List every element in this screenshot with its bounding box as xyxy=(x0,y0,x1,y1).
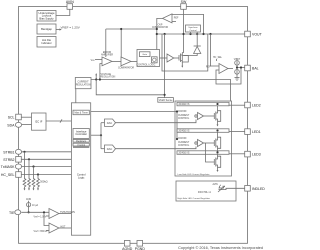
wire NFET source sink arrow xyxy=(181,63,183,67)
DAC 2 xyxy=(105,145,116,152)
svg-text:I2C IF: I2C IF xyxy=(35,119,43,123)
wire DAC1 to channel 1 xyxy=(116,120,197,123)
wire TIE input xyxy=(21,211,49,213)
block I2C interface xyxy=(32,113,47,130)
wire comparator 2 ref stub xyxy=(46,230,49,232)
wire BAL ref input from VOUT rail xyxy=(211,34,220,66)
svg-text:20/40Ω I/S: 20/40Ω I/S xyxy=(179,104,190,106)
block undervoltage lockout bias supply xyxy=(37,11,56,22)
pin SDA xyxy=(15,122,21,127)
wire comparator 2 output xyxy=(59,227,71,229)
wire current sources junction xyxy=(236,65,238,69)
wire BAL output xyxy=(237,67,245,69)
pin STRB2 xyxy=(16,157,22,163)
svg-text:ON/OFF: ON/OFF xyxy=(178,111,187,113)
block control logic inner timer xyxy=(140,52,151,57)
svg-text:Control: Control xyxy=(77,144,85,147)
svg-text:HC_SEL: HC_SEL xyxy=(1,173,15,177)
block registers xyxy=(73,139,89,142)
svg-text:AVIN: AVIN xyxy=(66,0,74,4)
wire ch2 drain to bar2 xyxy=(217,132,219,137)
svg-text:HOT: HOT xyxy=(61,226,66,228)
resistor pulldown STRB2 xyxy=(28,159,31,188)
block interface control xyxy=(73,129,89,139)
wire ch1 drain to bar1 xyxy=(217,106,219,111)
chip boundary frame xyxy=(19,7,248,244)
svg-text:CONTROL: CONTROL xyxy=(178,118,190,120)
wire comparator ramp vertical xyxy=(120,29,122,57)
svg-text:CURRENT: CURRENT xyxy=(77,81,89,83)
DAC 1 xyxy=(105,119,116,126)
svg-text:LED2: LED2 xyxy=(252,104,261,108)
svg-text:Controller: Controller xyxy=(75,132,87,136)
svg-text:REF: REF xyxy=(206,66,211,68)
svg-text:20/40Ω I/S: 20/40Ω I/S xyxy=(179,131,190,133)
svg-text:INDLED: INDLED xyxy=(252,187,265,191)
svg-text:AMPLIFIER: AMPLIFIER xyxy=(101,53,113,56)
wire STRB1 xyxy=(21,151,71,153)
pin STRB1 xyxy=(15,149,21,154)
pin VOUT xyxy=(245,31,251,37)
wire amp to output node xyxy=(228,68,233,70)
svg-text:Bandgap: Bandgap xyxy=(41,27,52,31)
svg-text:SCL: SCL xyxy=(8,116,15,120)
current source BAL upper xyxy=(235,61,240,66)
wire TxMASK xyxy=(21,166,71,168)
svg-text:Low-Side LED Current Regulator: Low-Side LED Current Regulator xyxy=(178,173,210,176)
wire OVP REF input stub xyxy=(172,20,176,22)
block low side LED current regulator xyxy=(175,101,232,176)
wire voltage regulation feedback xyxy=(91,80,231,102)
resistor sense bar channel 2 xyxy=(177,129,229,133)
svg-text:Synchron: Synchron xyxy=(188,26,198,29)
wire SCL xyxy=(21,116,31,118)
wire HC_SEL xyxy=(21,174,71,176)
svg-text:VREF = 1.25V: VREF = 1.25V xyxy=(61,25,80,29)
svg-text:TSHUTDOWN: TSHUTDOWN xyxy=(60,212,75,214)
transistor channel 1 FET xyxy=(213,113,215,119)
svg-text:COMPARATOR: COMPARATOR xyxy=(118,67,134,70)
wire bar1 to LED2 pin xyxy=(229,104,245,106)
wire BAL feedback loop xyxy=(216,68,241,85)
wire comparator 1 ref stub xyxy=(46,215,49,217)
svg-text:Bias Supply: Bias Supply xyxy=(39,16,54,20)
op-amp PWM comparator xyxy=(121,57,131,66)
svg-text:20/40Ω I/S: 20/40Ω I/S xyxy=(179,153,190,155)
svg-text:COMPARATOR: COMPARATOR xyxy=(152,26,168,29)
wire ch1 amp to FET gate xyxy=(204,115,215,117)
diode rectifier xyxy=(196,34,198,46)
svg-text:REGULATION: REGULATION xyxy=(101,76,116,79)
wire diode anode to SW node xyxy=(184,54,198,56)
svg-text:CONTROL: CONTROL xyxy=(178,145,190,147)
block current regulation xyxy=(75,78,91,89)
current source BAL lower xyxy=(235,70,240,75)
transistor NFET boost switch xyxy=(178,55,180,61)
resistor sense bar channel 1 xyxy=(177,102,229,106)
wire Vfb input xyxy=(95,59,102,61)
svg-text:LED1: LED1 xyxy=(252,130,261,134)
node VOUT rail junctions xyxy=(156,33,158,35)
svg-text:HC_SEL: HC_SEL xyxy=(213,57,223,59)
block control logic inner latch xyxy=(152,57,158,63)
svg-text:VFB: VFB xyxy=(91,60,96,62)
svg-text:AVIN: AVIN xyxy=(213,183,219,186)
transistor channel 2 FET xyxy=(213,140,215,146)
pin HC_SEL xyxy=(16,172,22,178)
block synchronous control xyxy=(186,25,201,32)
svg-text:Logic: Logic xyxy=(78,176,85,180)
block power stage xyxy=(162,34,208,71)
wire ch2 amp to FET gate xyxy=(204,142,215,144)
svg-text:Indicator: Indicator xyxy=(41,41,51,45)
wire error amp top vertical xyxy=(105,29,107,57)
block hot die indicator xyxy=(37,37,56,48)
wire error amp to PWM comparator xyxy=(112,60,121,62)
block VLED sense xyxy=(158,98,174,103)
op-amp channel 1 control xyxy=(198,113,204,120)
pin TxMASK xyxy=(15,164,21,169)
svg-text:AVIN: AVIN xyxy=(26,198,32,201)
current sink channel 1 xyxy=(217,122,219,126)
transistor indicator PFET xyxy=(219,187,225,189)
resistor pulldown HC_SEL xyxy=(37,175,40,189)
wire ch2 gate to ch3 gate xyxy=(206,143,215,162)
wire comparator to control logic xyxy=(131,60,138,62)
wire STRB2 xyxy=(21,158,71,160)
op-amp OVP comparator xyxy=(163,14,173,23)
wire I2C to control xyxy=(46,120,71,122)
op-amp thermal comparator 1 xyxy=(49,209,59,219)
pin AGND xyxy=(124,241,130,247)
BAL high current amplifier xyxy=(219,64,228,74)
svg-text:VOUT: VOUT xyxy=(234,59,241,61)
pin SCL xyxy=(16,114,22,120)
svg-text:SW: SW xyxy=(181,0,187,4)
wire current source to TIE node xyxy=(28,207,30,213)
svg-text:STRB2: STRB2 xyxy=(3,158,14,162)
svg-text:INDCTRL x1: INDCTRL x1 xyxy=(198,192,212,194)
block control logic xyxy=(137,50,160,67)
wire bar3 to LED3 pin xyxy=(229,153,245,155)
svg-text:REF: REF xyxy=(174,18,179,20)
ground BAL xyxy=(235,77,240,79)
wire AVIN to UVLO xyxy=(56,9,70,15)
pin LED2 xyxy=(245,102,251,108)
svg-text:Copyright © 2016, Texas Instru: Copyright © 2016, Texas Instruments Inco… xyxy=(178,246,263,250)
svg-text:TxMASK: TxMASK xyxy=(1,165,15,169)
svg-text:DAC: DAC xyxy=(107,121,113,125)
svg-text:TIE: TIE xyxy=(9,211,15,215)
transistor channel 3 FET xyxy=(213,159,215,165)
svg-text:10 μA: 10 μA xyxy=(32,204,39,207)
svg-text:Vref = 1.05V: Vref = 1.05V xyxy=(34,216,47,219)
wire VLED sense vertical xyxy=(164,34,166,98)
wire on/off control to LED regulator xyxy=(91,111,177,113)
svg-text:BAL: BAL xyxy=(252,67,259,71)
wire VOUT rail xyxy=(157,33,245,35)
svg-text:Gate: Gate xyxy=(142,53,148,56)
wire lower source to ground xyxy=(236,74,238,77)
wire SDA xyxy=(22,124,32,126)
svg-text:VOUT: VOUT xyxy=(252,33,263,37)
pin TIE xyxy=(15,210,21,215)
svg-text:DAC: DAC xyxy=(107,147,113,151)
pin SW xyxy=(181,4,187,10)
block control logic registers tall box xyxy=(71,103,90,235)
svg-text:SDA: SDA xyxy=(7,123,15,127)
svg-text:LED3: LED3 xyxy=(252,153,261,157)
wire OVP output to control logic xyxy=(157,18,163,49)
wire bar2 to LED1 pin xyxy=(229,130,245,132)
svg-text:ON/OFF: ON/OFF xyxy=(178,138,187,140)
pin AVIN xyxy=(67,4,73,10)
pin INDLED xyxy=(245,186,251,192)
pin LED1 xyxy=(245,129,251,135)
svg-text:300kΩ: 300kΩ xyxy=(40,179,48,183)
svg-text:Vref = 650mV: Vref = 650mV xyxy=(34,230,48,233)
pin PGND xyxy=(137,241,143,247)
svg-text:Max & Timer: Max & Timer xyxy=(74,112,88,115)
wire comparator 1 output xyxy=(59,213,71,215)
wire SW node vertical xyxy=(183,9,185,34)
svg-text:STRB1: STRB1 xyxy=(3,150,14,154)
resistor current sense xyxy=(182,56,188,63)
resistor sense bar channel 3 xyxy=(177,151,229,155)
wire bandgap VREF output arrow xyxy=(56,29,60,31)
op-amp channel 2 control xyxy=(198,140,204,147)
wire channel control vertical xyxy=(176,112,178,140)
svg-text:Registers: Registers xyxy=(76,140,87,143)
svg-text:VLED Sense: VLED Sense xyxy=(159,99,173,102)
wire error amp lower input from feedback xyxy=(100,64,102,80)
svg-text:REGULATION: REGULATION xyxy=(76,83,91,86)
current sink channel 3 xyxy=(217,168,219,172)
block max timer xyxy=(73,110,89,115)
wire upper source to VOUT label xyxy=(236,58,238,60)
current sink channel 2 xyxy=(217,149,219,153)
op-amp error amplifier xyxy=(102,57,112,66)
wire compensation top horizontal xyxy=(106,28,157,30)
svg-text:High-Side LED Current Regulato: High-Side LED Current Regulator xyxy=(178,197,211,200)
pin LED3 xyxy=(245,151,251,157)
op-amp thermal comparator 2 xyxy=(49,223,59,233)
block bandgap xyxy=(37,24,56,34)
gate driver buffer xyxy=(167,54,174,62)
wire sync control stubs to VOUT rail xyxy=(190,32,192,34)
block high side LED current regulator xyxy=(176,181,236,201)
current source 10uA xyxy=(27,203,31,207)
resistor pulldown STRB1 xyxy=(23,152,26,189)
svg-text:CONTROL LOGIC: CONTROL LOGIC xyxy=(137,65,156,67)
wire gate to NFET xyxy=(174,57,179,59)
resistor pulldown TxMASK xyxy=(32,167,35,189)
wire control logic to gate driver xyxy=(160,57,168,59)
wire HC_SEL select stub xyxy=(216,59,218,61)
wire TIE to lower comparator xyxy=(44,212,49,225)
wire indicator output to INDLED pin xyxy=(224,188,245,189)
pin BAL xyxy=(245,65,251,71)
wire ch3 drain to bar3 xyxy=(217,154,219,156)
wire OVP upper input sense xyxy=(172,14,204,34)
svg-text:Control: Control xyxy=(189,29,197,32)
wire DAC2 to channel 2 xyxy=(116,147,197,149)
wire interface to DAC branch xyxy=(91,134,101,136)
